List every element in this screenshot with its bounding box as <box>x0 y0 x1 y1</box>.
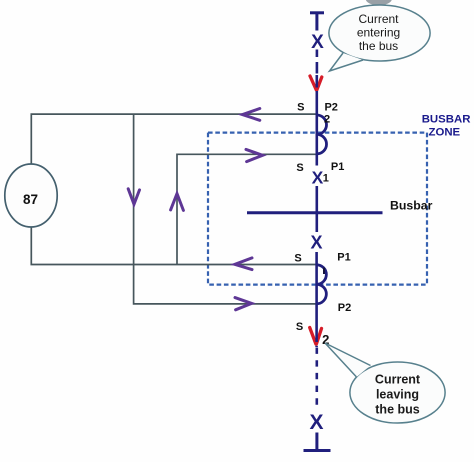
svg-text:X: X <box>310 233 322 253</box>
speech bubble current leaving the bus <box>325 343 445 423</box>
gray blob above top bubble <box>366 0 392 5</box>
svg-text:P1: P1 <box>331 161 344 173</box>
svg-text:S: S <box>297 101 304 113</box>
wire relay-bottom to CT2-S1 (node at y=264) <box>31 227 316 265</box>
svg-text:P2: P2 <box>338 302 351 314</box>
purple arrow right on CT1-S2 wire <box>246 149 263 161</box>
svg-text:S: S <box>294 253 301 265</box>
purple arrow down on x=133 wire <box>128 189 139 205</box>
feeder segment X to CT2 <box>315 252 318 265</box>
svg-text:1: 1 <box>323 173 329 185</box>
svg-text:leaving: leaving <box>376 388 419 402</box>
svg-text:X: X <box>309 411 323 434</box>
wire relay-top to CT1-S1 (node at y=114) <box>31 114 317 164</box>
feeder segment CT1 to isolator X1 <box>315 154 318 166</box>
busbar zone dashed boundary <box>208 133 427 285</box>
svg-text:the bus: the bus <box>375 403 419 417</box>
svg-text:Busbar: Busbar <box>390 198 433 212</box>
feeder segment CT2 down through red arrow <box>315 304 318 347</box>
svg-text:Current: Current <box>358 12 399 26</box>
svg-text:P1: P1 <box>337 252 350 264</box>
relay 87 circle <box>5 164 57 227</box>
svg-text:ZONE: ZONE <box>429 127 461 139</box>
feeder top T terminal <box>310 13 324 31</box>
feeder dashed segment to bottom <box>315 348 318 411</box>
svg-text:the bus: the bus <box>359 39 398 53</box>
red arrow current leaving <box>310 328 322 345</box>
svg-text:Current: Current <box>375 373 421 387</box>
purple arrow up on x=177 wire <box>171 194 184 211</box>
feeder solid line V to CT1 <box>315 75 318 115</box>
CT2 primary arcs <box>317 265 327 304</box>
wire CT1-S2 down x=177 to bottom bus wire <box>177 154 317 264</box>
CT2 terminal tick 1 <box>323 268 325 275</box>
feeder dashed segment above red arrow <box>316 50 319 74</box>
red arrow current entering <box>310 76 322 90</box>
svg-text:87: 87 <box>23 192 38 207</box>
svg-text:S: S <box>296 321 303 333</box>
isolator X1 <box>312 168 329 188</box>
BUSBAR ZONE label <box>422 114 471 139</box>
purple arrow left on top wire <box>242 109 259 121</box>
busbar <box>247 211 383 214</box>
svg-text:S: S <box>296 162 303 174</box>
svg-text:BUSBAR: BUSBAR <box>422 114 471 126</box>
purple arrow left on bottom wire <box>235 258 252 270</box>
feeder bottom T terminal <box>304 433 331 451</box>
purple arrow right on CT2-S2 wire <box>235 298 252 310</box>
svg-text:P2: P2 <box>324 101 337 113</box>
svg-text:entering: entering <box>357 25 400 39</box>
wire junction drop x=133.5 to CT2-S2 <box>134 114 317 304</box>
speech bubble current entering the bus <box>329 5 430 71</box>
svg-text:2: 2 <box>324 114 330 126</box>
CT1 primary arcs <box>317 115 327 154</box>
feeder segment X1 to busbar <box>315 186 318 232</box>
